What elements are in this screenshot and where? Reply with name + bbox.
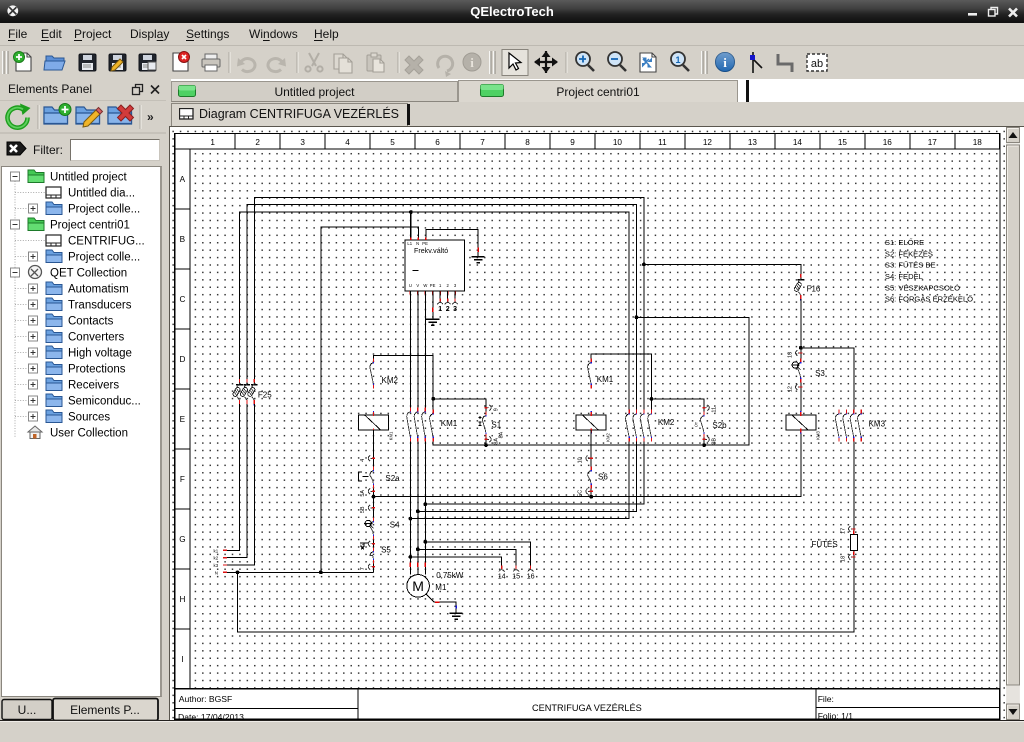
svg-text:10: 10 [612,137,622,146]
actuator S3 [791,361,801,369]
svg-text:L1: L1 [407,241,412,246]
svg-text:FŰTÉS: FŰTÉS [811,539,837,548]
terminal 5B [360,504,375,512]
svg-text:18: 18 [972,137,982,146]
svg-text:17: 17 [840,527,846,533]
svg-text:Untitled dia...: Untitled dia... [68,188,135,200]
label k2 [213,555,218,560]
svg-text:Sources: Sources [68,412,110,424]
ground motor [449,613,462,619]
svg-text:S3: S3 [815,368,825,377]
actuator S2b [693,421,698,427]
svg-text:7: 7 [480,137,485,146]
svg-text:ab: ab [811,58,823,70]
node N-branch [235,570,239,574]
svg-text:7: 7 [360,567,366,570]
wire k3 [222,403,254,564]
svg-text:Author: BGSF: Author: BGSF [178,694,232,704]
svg-text:M: M [412,578,424,594]
pin motor 424.8 [424,562,426,567]
wire coil KM2 to S6 [590,429,592,466]
svg-text:k2: k2 [213,555,218,560]
wire coil return rail [433,317,749,445]
contact KM2 pole 1 [625,409,629,441]
svg-text:i: i [723,55,727,70]
svg-text:KM2: KM2 [605,432,610,441]
svg-text:S2: FÉKEZÉS: S2: FÉKEZÉS [884,249,932,258]
contact KM3 pole 2 [842,409,846,441]
wire bypass W [425,441,644,504]
wire N rail [222,571,373,573]
node bypass U [408,516,412,520]
svg-text:S5: VÉSZKAPCSOLÓ: S5: VÉSZKAPCSOLÓ [884,283,959,292]
wire S1 to rail [485,437,487,445]
wire coil KM1 to chain [372,429,374,466]
wire chain mid2 [372,539,374,547]
label S2a [385,474,400,483]
svg-text:»: » [147,110,154,124]
actuator S2a [358,472,368,481]
label KM1 coil rotated [388,431,393,440]
wire KM2-NC feed [373,355,433,409]
label KM2 interlock [381,375,398,384]
node L1 tap [409,210,413,214]
contact KM3 pole 1 [835,409,839,441]
svg-text:PE: PE [422,241,428,246]
terminal 18 [840,554,855,562]
label KM2 bank [657,417,674,426]
svg-text:k1: k1 [213,548,218,553]
wire N riser to converter [320,226,418,571]
contact S6 [587,466,591,488]
terminal 5A [360,488,375,496]
svg-text:10: 10 [577,457,583,463]
contact S2b [700,411,704,437]
contact KM2 pole 2 [632,409,636,441]
wire S3 to coil [799,382,801,414]
svg-text:S6: FORGÁS ÉRZÉKELŐ: S6: FORGÁS ÉRZÉKELŐ [884,294,972,303]
contact KM1 pole 1 [406,407,410,441]
svg-text:F16: F16 [806,284,820,293]
wire PE earth drop [431,290,433,318]
pin motor 417.3 [416,562,418,567]
svg-text:Converters: Converters [68,332,124,344]
terminal 4 [360,455,375,461]
svg-text:5A: 5A [360,489,366,496]
svg-text:E: E [179,414,185,423]
terminal 8B [702,436,717,444]
svg-text:Elements P...: Elements P... [70,703,140,717]
svg-text:Project colle...: Project colle... [68,204,140,216]
node chain tap [371,494,375,498]
wire S2b to rail [703,437,705,445]
label KM3 coil rotated [815,430,820,439]
node tap U [408,555,412,559]
ground PE top [471,256,484,262]
terminal 6 [360,540,375,546]
svg-text:N: N [214,570,217,575]
svg-text:High voltage: High voltage [68,348,132,360]
label KM2 coil rotated [605,432,610,441]
svg-text:KM2: KM2 [381,375,398,384]
svg-text:1: 1 [675,55,680,65]
svg-text:I: I [181,654,183,663]
svg-text:11: 11 [658,137,667,146]
svg-text:Project colle...: Project colle... [68,252,140,264]
contact KM2 interlock [369,358,373,388]
svg-text:13: 13 [787,351,793,357]
label N [214,570,217,575]
node heater branch [798,346,802,350]
wire W lower [424,441,426,574]
svg-text:S2b: S2b [712,420,727,429]
svg-text:11: 11 [711,406,717,412]
svg-text:KM1: KM1 [388,431,393,440]
label KM1 bank [440,419,457,428]
svg-text:14: 14 [792,137,802,146]
wire KM1-NO feed [591,354,651,410]
wire F16 to S3 [799,298,801,358]
svg-text:User Collection: User Collection [50,428,128,440]
svg-text:12: 12 [787,386,793,392]
wire V upper [416,290,418,407]
svg-text:ŰT: ŰT [693,421,698,427]
wire L2 bus [246,204,636,409]
svg-text:KM1: KM1 [440,419,457,428]
terminal 12 [787,384,802,392]
svg-text:1: 1 [438,306,442,313]
fuse F25 pole 3 [246,378,257,404]
wire motor earth [426,594,456,613]
contact S4 [369,517,373,539]
svg-text:File:: File: [817,693,833,703]
node N-riser [319,570,323,574]
wire L1 to converter [409,212,411,240]
wire heater feed [800,347,853,409]
label KM1 aux [596,375,613,384]
svg-text:13: 13 [747,137,757,146]
contact KM1 pole 3 [421,407,425,441]
wire pin2 stub [446,290,448,300]
terminal 14 [497,565,505,580]
svg-text:Filter:: Filter: [33,143,63,157]
svg-text:17: 17 [927,137,937,146]
wire heater drop [852,441,854,534]
svg-text:S3: FŰTÉS BE: S3: FŰTÉS BE [884,260,935,269]
contact KM3 pole 3 [850,409,854,441]
contact KM1 aux [587,358,591,388]
svg-text:2: 2 [255,137,260,146]
node S1 rail [484,443,488,447]
label F25 [257,390,271,399]
svg-text:Semiconduc...: Semiconduc... [68,396,141,408]
svg-text:Protections: Protections [68,364,126,376]
wire S6 bottom [590,488,592,496]
wire k2 [222,403,246,557]
node S2b rail [702,443,706,447]
svg-text:0,75kW: 0,75kW [436,571,464,580]
svg-text:N: N [416,241,419,246]
label S6 [598,472,608,481]
wire F16 feed [643,264,800,276]
svg-text:PE: PE [429,283,435,288]
terminal 11 [702,404,717,412]
wire tap 14 [410,556,501,566]
terminal 13 [787,350,802,358]
node S6 tap [589,494,593,498]
fuse F25 pole 1 [232,378,243,404]
svg-text:D: D [179,354,185,363]
node tap W [423,540,427,544]
terminal 16 [526,565,534,580]
label FŰTÉS [811,539,837,548]
wire tap 16 [425,541,530,566]
svg-text:k3: k3 [213,563,218,568]
svg-text:F: F [179,474,184,483]
wire S2b feed [651,398,704,411]
contact KM1 pole 4 [429,409,433,441]
legend switch functions [884,238,972,304]
svg-text:B: B [179,234,185,243]
contact KM2 pole 4 [647,409,651,441]
svg-text:KM3: KM3 [815,430,820,439]
svg-text:9: 9 [493,408,499,411]
svg-text:15: 15 [512,571,520,580]
svg-text:1: 1 [210,137,215,146]
svg-text:14: 14 [497,571,505,580]
svg-text:6: 6 [435,137,440,146]
svg-text:Automatism: Automatism [68,284,129,296]
svg-text:5C: 5C [577,489,583,496]
node L2 tap [634,315,638,319]
svg-text:F25: F25 [257,390,271,399]
coil KM1 [358,411,388,434]
svg-text:QET Collection: QET Collection [50,268,127,280]
svg-text:KM2: KM2 [657,417,674,426]
svg-text:5B: 5B [360,506,366,513]
terminal 17 [840,526,855,534]
node bypass W [423,502,427,506]
terminal 7 [360,563,375,569]
svg-text:G: G [179,534,185,543]
terminal 15 [512,565,520,580]
contact KM1 pole 2 [414,407,418,441]
label motor rating [436,571,464,580]
svg-text:8A: 8A [493,437,499,444]
svg-text:S5: S5 [381,545,391,554]
actuator S4 [363,520,373,528]
label S1 [491,420,501,429]
svg-text:S4: S4 [389,520,399,529]
svg-text:2: 2 [445,306,449,313]
label k1 [213,548,218,553]
wire U lower [409,441,411,574]
svg-text:16: 16 [526,571,534,580]
svg-text:V: V [416,283,419,288]
label S5 [381,545,391,554]
wire bypass U [410,441,629,518]
svg-text:Contacts: Contacts [68,316,114,328]
svg-text:W: W [423,283,427,288]
contact S3 [797,358,801,382]
svg-text:H: H [179,594,185,603]
svg-text:5: 5 [390,137,395,146]
svg-text:9: 9 [570,137,575,146]
node S1 branch [431,396,435,400]
svg-text:S4: FEDÉL: S4: FEDÉL [884,272,922,281]
label KM3 bank [868,419,885,428]
fuse F16 [793,273,804,299]
wire tap 15 [417,549,515,567]
svg-text:CENTRIFUGA VEZÉRLÉS: CENTRIFUGA VEZÉRLÉS [532,702,642,712]
wire chain mid1 [372,488,374,517]
contact S2a [369,466,373,488]
label S2b [712,420,727,429]
coil KM3 [785,411,815,434]
coil KM2 [576,411,606,434]
heater FŰTÉS [850,530,857,554]
svg-text:S2a: S2a [385,474,400,483]
terminal 8A [484,436,499,444]
svg-text:3: 3 [453,306,457,313]
contact S5 [369,547,373,563]
svg-text:KM3: KM3 [868,419,885,428]
pin motor 409.9 [409,562,411,567]
label F16 [806,284,820,293]
converter U1 Frekv.váltó [404,237,464,294]
svg-text:Project centri01: Project centri01 [50,220,130,232]
wire bypass V [417,441,636,511]
label S3 [815,368,825,377]
svg-text:4: 4 [360,458,366,461]
actuator S1 [478,416,481,426]
wire PE to earth [425,229,477,256]
wire pin3 stub [454,290,456,300]
svg-text:S1: ELŐRE: S1: ELŐRE [884,238,923,247]
wire pin1 stub [439,290,441,300]
terminal 1 [437,298,443,313]
svg-text:Frekv.váltó: Frekv.váltó [414,247,448,255]
svg-text:Receivers: Receivers [68,380,119,392]
node bypass V [415,509,419,513]
svg-text:S6: S6 [598,472,608,481]
ground PE converter [426,319,439,325]
label S1 rating [498,431,504,438]
node F16 tap [642,262,646,266]
svg-text:8: 8 [525,137,530,146]
svg-text:12: 12 [702,137,712,146]
svg-text:A: A [179,174,185,183]
wire chain bottom [372,563,374,572]
wire U upper [409,290,411,407]
svg-text:C: C [179,294,185,303]
wire L1 bus [239,212,629,410]
svg-text:U...: U... [18,703,37,717]
wire V lower [416,441,418,574]
svg-text:S1: S1 [491,420,501,429]
node tap V [415,547,419,551]
node S2b branch [649,397,653,401]
svg-text:3: 3 [300,137,305,146]
wire W upper [424,290,426,407]
wire sensor line [373,429,800,496]
svg-text:16: 16 [882,137,892,146]
motor M1 [406,574,429,597]
wire L3 bus [254,197,644,409]
contact KM2 pole 3 [640,409,644,441]
wire k1 [222,403,239,549]
svg-text:15: 15 [837,137,847,146]
terminal 5C [577,488,592,496]
label S4 [389,520,399,529]
terminal 9 [484,404,499,410]
label k3 [213,563,218,568]
contact KM3 pole 4 [857,409,861,441]
svg-text:i: i [470,55,474,70]
wire S1 feed [433,398,486,411]
svg-text:U: U [408,283,411,288]
svg-text:8A: 8A [498,431,504,438]
svg-text:Transducers: Transducers [68,300,132,312]
svg-text:KM1: KM1 [596,375,613,384]
contact S1 [482,411,486,437]
svg-text:M1: M1 [435,582,447,591]
terminal 10 [577,455,592,463]
svg-text:CENTRIFUG...: CENTRIFUG... [68,236,145,248]
wire N bottom rail [237,550,853,631]
svg-text:18: 18 [840,555,846,561]
terminal 2 [444,298,450,313]
actuator S5 [360,543,368,549]
svg-text:8B: 8B [711,437,717,444]
fuse F25 pole 2 [239,378,250,404]
svg-text:4: 4 [345,137,350,146]
svg-text:Untitled project: Untitled project [50,172,128,184]
terminal 3 [452,298,458,313]
label M1 [435,582,447,591]
